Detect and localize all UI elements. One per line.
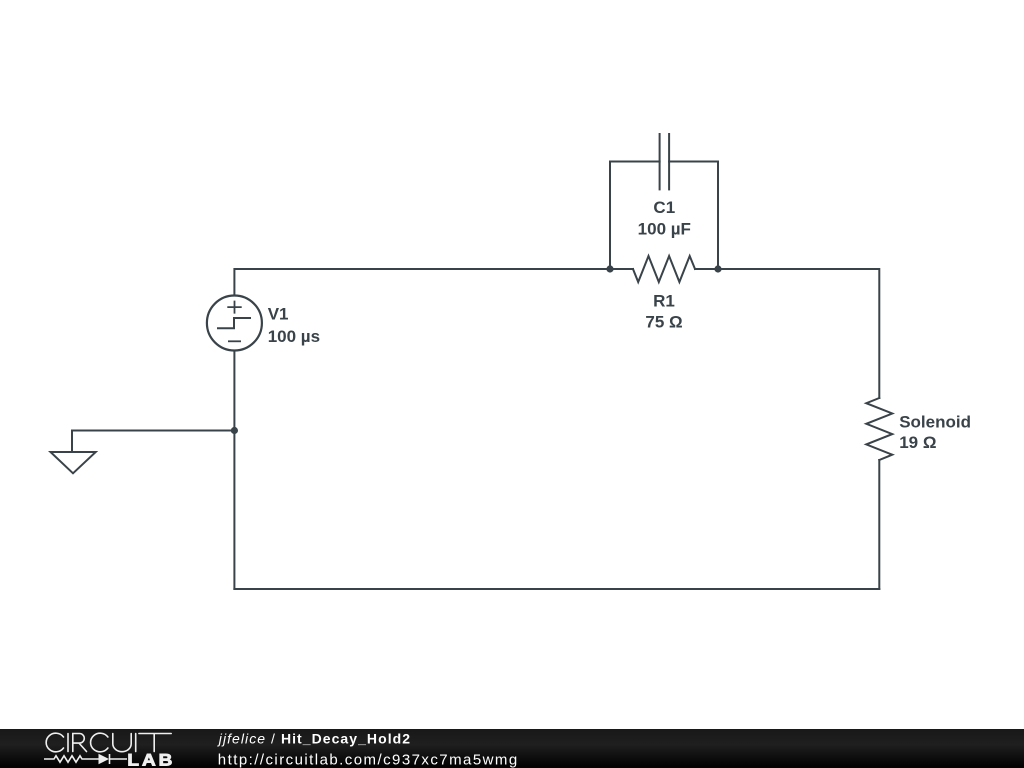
voltage source V1 circle [207,296,262,351]
svg-text:LAB: LAB [127,751,175,768]
V1 minus sign [228,340,241,342]
ground [71,431,73,453]
wire: ground branch horizontal [72,430,234,432]
CircuitLab logo: CIRCUIT wordmark [46,733,171,752]
svg-text:http://circuitlab.com/c937xc7m: http://circuitlab.com/c937xc7ma5wmg [218,751,519,768]
CircuitLab logo: LAB text [127,751,175,768]
wire: node B to right corner [718,269,879,398]
svg-text:Solenoid: Solenoid [899,412,971,431]
svg-text:100 µs: 100 µs [268,327,320,346]
svg-text:75 Ω: 75 Ω [645,313,682,332]
svg-text:R1: R1 [653,292,675,311]
footer bar [0,729,1024,768]
capacitor C1 plates [659,134,661,189]
node A junction dot [606,265,613,272]
wire: bottom horizontal [234,588,879,590]
wire: right side down to bottom [878,460,880,589]
ground node junction dot [231,427,238,434]
resistor Solenoid [866,398,892,460]
wire: top horizontal net from V1 to node A [234,269,610,296]
svg-text:jjfelice / Hit_Decay_Hold2: jjfelice / Hit_Decay_Hold2 [217,731,411,747]
V1 step waveform [217,318,251,328]
capacitor C1 branch: right vertical wire [669,162,718,270]
wire: R1 right lead [695,268,718,270]
svg-text:100 µF: 100 µF [638,219,691,238]
svg-text:C1: C1 [653,198,675,217]
svg-text:V1: V1 [268,305,289,324]
node B junction dot [714,265,721,272]
CircuitLab logo: resistor-diode line [44,754,127,764]
V1 plus sign [227,301,241,314]
CircuitLab logo: diode triangle [99,754,110,765]
wire: left side up to V1 bottom [233,351,235,590]
svg-text:19 Ω: 19 Ω [899,433,936,452]
capacitor C1 branch: left vertical wire [610,162,660,270]
wire: node A to node B via R1 leads [610,268,633,270]
resistor R1 [633,256,695,282]
